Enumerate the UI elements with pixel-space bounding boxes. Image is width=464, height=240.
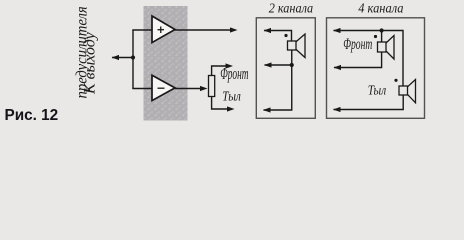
node B2 polarity dot [374,35,377,38]
arrow B2 minus (points left) [334,65,342,70]
svg-text:4 канала: 4 канала [358,0,404,16]
box 4 channels [327,18,425,119]
arrow common return (points left) [263,107,271,112]
op-amp A2 (inverting -) [152,75,175,100]
arrow front tap (points right) [226,63,234,68]
speaker B2 front [378,36,395,60]
speaker B1 [288,34,306,58]
wire common return [264,65,292,110]
arrow input (points left) [112,55,120,60]
arrow B1 minus (points left) [264,62,272,67]
arrow A1 output (points right) [230,27,238,32]
svg-text:Фронт: Фронт [343,35,372,53]
wire to op-amp A2 input [132,88,152,90]
amplifier block shaded band [144,6,188,121]
svg-text:Фронт: Фронт [220,64,249,82]
node junction B1 minus [290,63,294,67]
wire op-amp A1 output [175,29,231,31]
svg-text:2 канала: 2 канала [269,0,314,16]
speaker B3 rear [399,80,416,103]
wire input from preamp [112,57,133,59]
node B3 polarity dot [394,79,397,82]
wire to op-amp A1 input [132,29,152,31]
wire speaker B1 minus [265,50,292,65]
node junction B2 plus [380,28,384,32]
wire op-amp A2 output [175,88,201,90]
node B1 polarity dot [284,34,287,37]
svg-text:К выходу: К выходу [82,31,99,95]
fader block XS1 [209,76,215,97]
svg-text:Тыл: Тыл [368,82,387,97]
wire speaker B1 plus [264,31,292,42]
arrow B3 minus (points left) [333,107,341,112]
wire front speaker B2 plus [334,31,404,87]
arrow rear tap (points right) [227,106,235,111]
op-amp A1 (non-inverting +) [152,16,175,43]
wire fader rear tap [212,97,228,110]
wire vertical split [132,30,134,89]
wire fader front tap [212,66,227,76]
wire rear speaker B3 minus [334,95,404,110]
arrow A2 output (points right) [200,86,208,91]
svg-text:Тыл: Тыл [222,89,241,104]
arrow B1 plus (points left) [264,28,272,33]
svg-text:Рис. 12: Рис. 12 [5,107,59,124]
box 2 channels [256,18,315,119]
arrow B2 plus (points left) [333,28,341,33]
node junction input [131,55,135,59]
wire front speaker B2 minus [334,52,382,68]
node IN label: К выходу предусилителя [73,6,98,98]
wire B2 plus drop [381,31,383,43]
